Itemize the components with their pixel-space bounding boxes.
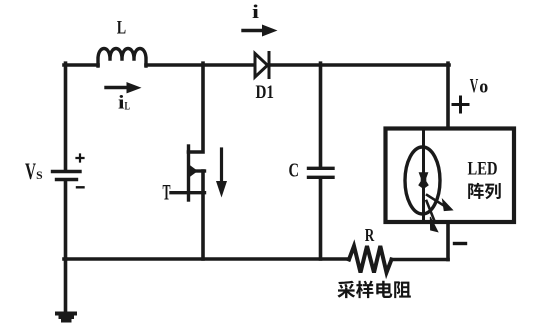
battery Vs	[53, 172, 81, 180]
wire bottom rail left	[64, 257, 349, 261]
capacitor C	[309, 168, 334, 177]
LED chip symbol	[418, 172, 429, 189]
svg-text:R: R	[365, 225, 375, 245]
wire top rail right segment	[269, 63, 449, 67]
LED light arrow 1	[427, 195, 453, 211]
current arrow i	[243, 25, 278, 37]
label sampling resistor dian	[376, 281, 392, 298]
svg-text:LED: LED	[468, 159, 498, 180]
wire left vertical lower	[64, 181, 68, 259]
wire capacitor top lead	[319, 63, 323, 167]
ground	[57, 314, 75, 321]
wire mosfet source	[201, 171, 205, 259]
label sampling resistor cai	[337, 281, 355, 298]
inductor L	[98, 49, 146, 67]
wire bottom rail right	[392, 258, 449, 262]
svg-text:L: L	[117, 17, 126, 38]
svg-text:V: V	[25, 159, 36, 184]
wire minus lead	[446, 222, 450, 260]
wire top rail middle segment	[146, 63, 253, 67]
transistor T	[171, 146, 205, 200]
LED cathode line	[422, 130, 425, 221]
diode D1	[255, 53, 269, 78]
label array zhen	[468, 183, 484, 199]
LED circle	[405, 147, 440, 214]
wire top rail left segment	[64, 63, 98, 67]
svg-text:V: V	[470, 75, 479, 97]
battery plus	[77, 155, 84, 162]
plus output	[453, 97, 468, 112]
svg-text:D1: D1	[256, 82, 275, 103]
current arrow iL	[106, 82, 142, 93]
svg-text:L: L	[125, 99, 131, 113]
battery minus	[77, 186, 84, 188]
minus output	[455, 242, 466, 245]
mosfet current arrow	[216, 149, 227, 198]
label array lie	[485, 183, 501, 199]
wire left vertical upper	[64, 63, 68, 170]
transistor body arrow	[190, 166, 198, 177]
label sampling resistor yang	[356, 281, 373, 299]
label sampling resistor zu	[394, 281, 411, 298]
wire capacitor bottom lead	[319, 179, 323, 259]
resistor R	[349, 246, 392, 273]
LED array box	[386, 129, 515, 223]
wire Vo lead	[446, 63, 450, 127]
svg-text:S: S	[36, 170, 43, 182]
svg-text:o: o	[479, 77, 488, 98]
svg-text:T: T	[163, 180, 171, 205]
svg-text:C: C	[289, 160, 300, 182]
LED light arrow 2	[427, 201, 438, 232]
wire mosfet drain	[189, 63, 204, 152]
svg-text:i: i	[252, 2, 259, 23]
wire ground lead	[64, 259, 68, 311]
